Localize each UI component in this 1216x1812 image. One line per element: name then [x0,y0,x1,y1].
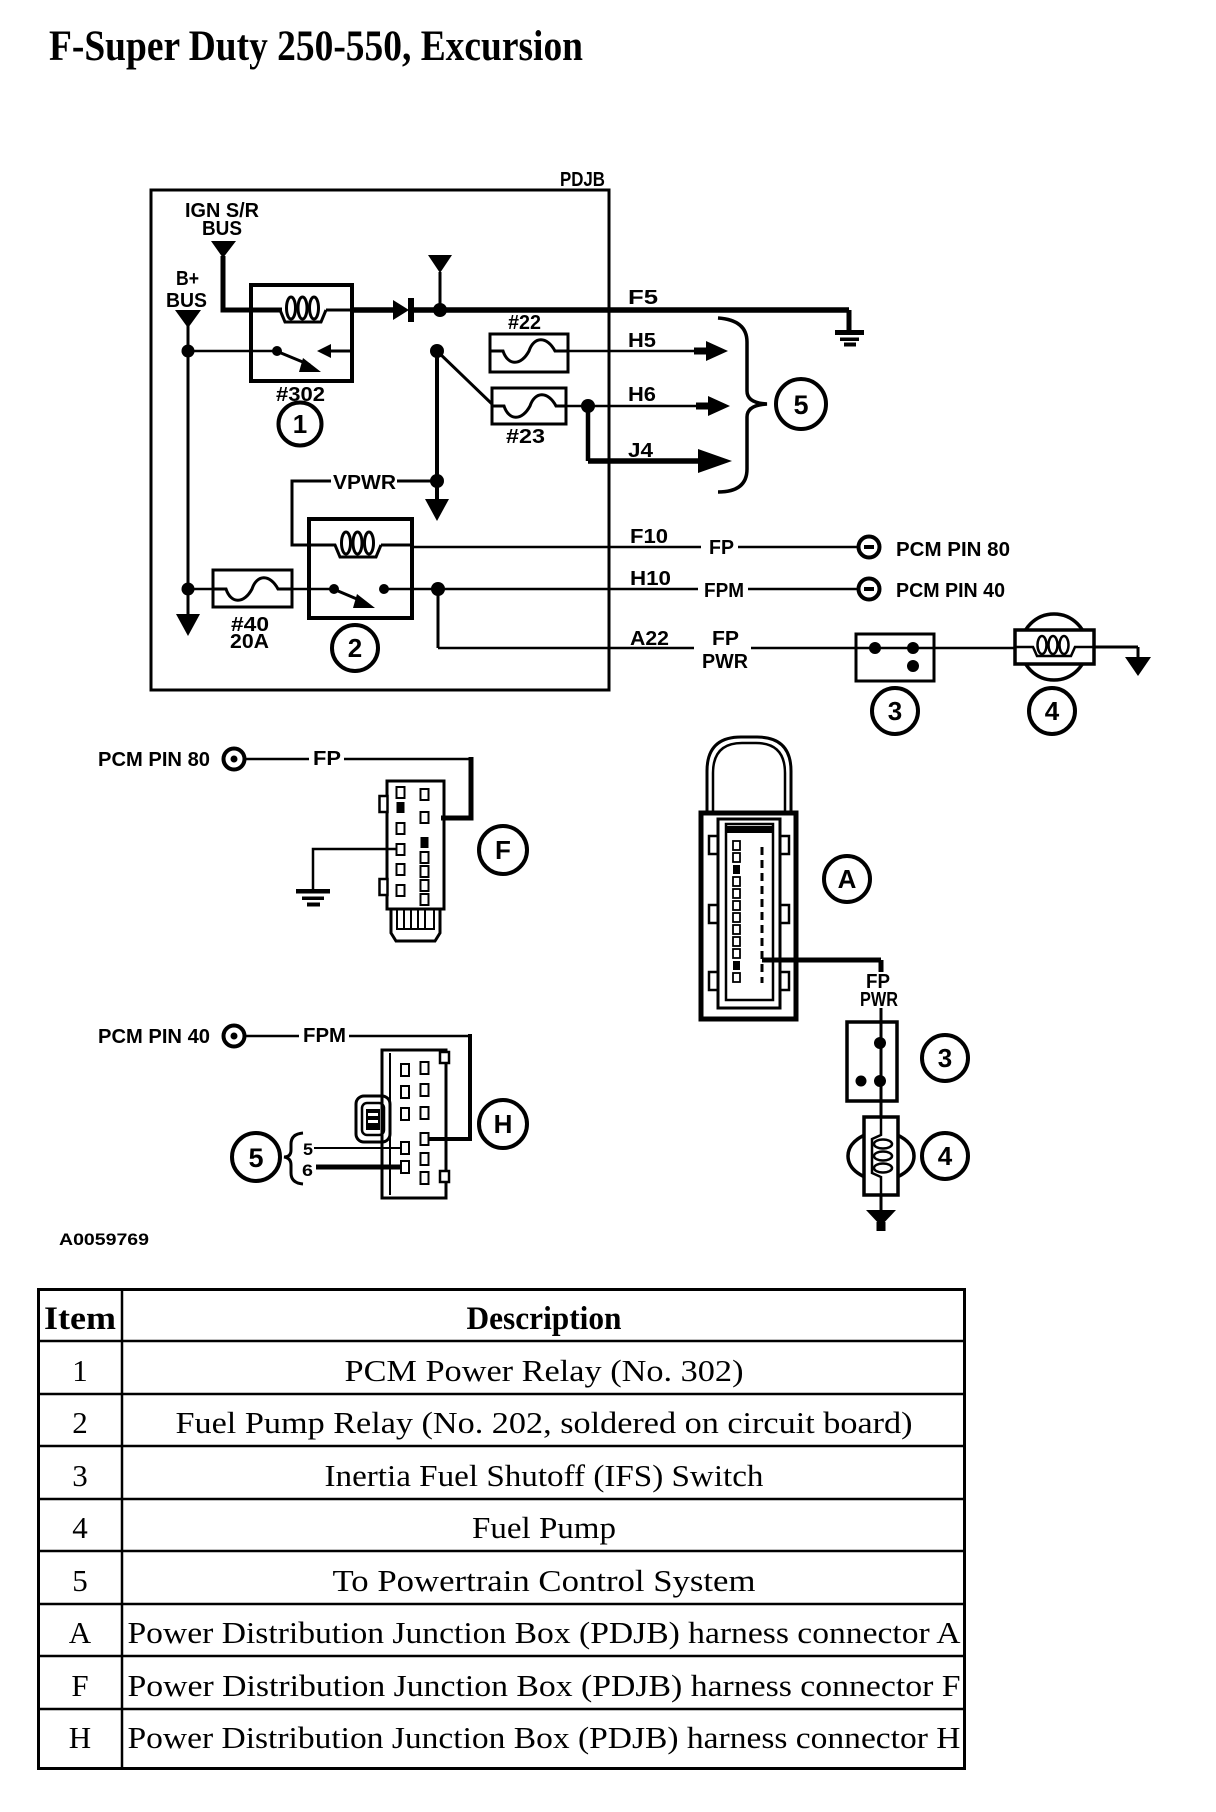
svg-text:3: 3 [72,1458,88,1493]
relay 2 box (fuel pump relay) [309,519,412,618]
svg-text:4: 4 [938,1141,953,1171]
connector H left pins [401,1064,409,1076]
svg-text:FPM: FPM [704,580,744,602]
relay 1 coil [280,310,326,322]
junction dot H10 [431,582,445,596]
svg-text:1: 1 [72,1353,88,1388]
PDJB harness connector H body [382,1050,446,1198]
svg-text:FP: FP [313,748,341,770]
svg-text:PWR: PWR [860,989,898,1011]
svg-text:To Powertrain Control System: To Powertrain Control System [333,1563,756,1598]
svg-text:PCM PIN 80: PCM PIN 80 [896,539,1010,561]
svg-text:6: 6 [302,1161,313,1180]
svg-text:Fuel Pump: Fuel Pump [472,1510,616,1545]
wire pin 5 [314,1147,401,1149]
callout circle A [824,856,870,902]
svg-text:PDJB: PDJB [560,169,605,191]
callout circle 1 [279,403,322,446]
terminal PCM PIN 40 [859,579,880,600]
callout circle F [479,826,527,874]
svg-text:A: A [69,1615,92,1650]
junction dot row2 [430,344,444,358]
svg-text:20A: 20A [230,631,269,653]
svg-text:Item: Item [44,1301,116,1337]
junction dot [182,345,195,358]
svg-text:2: 2 [72,1405,88,1440]
connector F right pins [421,789,429,800]
svg-text:BUS: BUS [202,218,242,240]
legend table [39,1290,965,1769]
wire J4 with arrow [586,406,591,461]
wire FP to connector F [245,758,471,761]
svg-text:#23: #23 [506,426,545,448]
wire B+ bus vertical [187,326,190,617]
svg-text:BUS: BUS [166,290,207,312]
svg-text:Fuel Pump Relay (No. 202, sold: Fuel Pump Relay (No. 202, soldered on ci… [176,1405,913,1440]
junction dot [182,583,195,596]
callout circle 3 (lower) [922,1035,968,1081]
wire connector A to FP PWR [762,960,881,972]
diagonal wire to fuse #23 [437,351,492,404]
wire H6 with arrow [566,405,702,408]
callout circle 3 [872,688,918,734]
brace to powertrain control [718,318,767,492]
arrow pointing down into F5 wire [439,272,442,306]
callout circle 2 [332,625,378,671]
arrow B+ bus bottom [176,614,200,636]
svg-text:1: 1 [293,409,307,439]
ground symbol at F5 [847,310,852,332]
callout circle 5 [776,379,826,429]
IFS switch box (horizontal) [856,634,934,681]
fuse #40 20A [213,570,292,607]
junction dot [433,303,447,317]
svg-text:F: F [71,1668,88,1703]
svg-text:5: 5 [303,1140,313,1159]
wire B+ to fuse 40 [193,588,213,591]
PDJB junction box [151,190,609,690]
callout circle 4 (lower) [922,1133,968,1179]
connector A side tabs [709,836,718,854]
wire H5 with arrow [568,350,700,353]
svg-text:PCM PIN 40: PCM PIN 40 [896,580,1005,602]
svg-text:FPM: FPM [303,1025,346,1047]
PDJB harness connector A dome [707,737,791,814]
wire pump to ground arrow [1094,647,1138,658]
svg-text:H: H [494,1109,513,1139]
wire pump to ground arrow (vertical) [880,1195,883,1211]
svg-text:3: 3 [888,696,902,726]
callout circle H [479,1100,527,1148]
wire connector F to ground [313,849,397,890]
svg-text:PCM PIN 40: PCM PIN 40 [98,1026,210,1048]
svg-text:F-Super Duty 250-550, Excursio: F-Super Duty 250-550, Excursion [49,23,583,70]
svg-text:Description: Description [467,1301,622,1337]
svg-text:J4: J4 [628,440,654,462]
relay 1 switch [272,346,282,356]
wire FPM to connector H [245,1035,470,1038]
callout circle 5 (lower) [232,1133,280,1181]
svg-text:Power Distribution Junction Bo: Power Distribution Junction Box (PDJB) h… [128,1720,961,1755]
svg-text:PWR: PWR [702,651,749,673]
svg-text:F10: F10 [630,526,668,548]
svg-text:FP: FP [709,537,734,559]
wire fuse 40 to relay 2 [292,588,334,591]
svg-text:Power Distribution Junction Bo: Power Distribution Junction Box (PDJB) h… [128,1615,962,1650]
connector A pin column [733,841,740,850]
fuel pump (horizontal) [1021,614,1087,680]
callout circle 4 [1029,688,1075,734]
svg-text:Power Distribution Junction Bo: Power Distribution Junction Box (PDJB) h… [128,1668,961,1703]
ground symbol [296,889,330,894]
net VPWR [292,481,331,545]
junction dot VPWR [430,474,444,488]
svg-text:B+: B+ [176,268,199,290]
connector H side plug [356,1096,390,1142]
relay 2 switch [329,584,339,594]
svg-text:A: A [838,864,857,894]
svg-text:4: 4 [72,1510,88,1545]
connector H right pins [421,1062,429,1074]
terminal PCM PIN 80 [859,537,880,558]
brace pins 5/6 [284,1133,303,1184]
svg-text:VPWR: VPWR [333,472,397,494]
svg-text:A22: A22 [630,628,669,650]
wire B+ to relay K1 contact [188,350,277,353]
wire VPWR vertical with down arrow [435,354,439,500]
connector F lower shroud [391,909,440,941]
wire FP PWR to IFS [880,1008,883,1022]
relay 1 box (PCM power relay #302) [251,285,352,381]
svg-text:F5: F5 [628,287,658,309]
svg-text:#22: #22 [508,312,541,334]
connector F left pins [397,787,405,798]
svg-text:H10: H10 [630,568,671,590]
wire H10 / FPM to PCM PIN 40 [412,588,858,591]
svg-text:5: 5 [72,1563,88,1598]
svg-text:2: 2 [348,633,362,663]
svg-text:F: F [495,835,511,865]
wire IGN S/R bus to relay K1 coil [223,256,282,310]
junction dot H6 [581,399,595,413]
svg-text:H: H [69,1720,91,1755]
fuse #22 [490,334,568,372]
fuse #23 [492,388,566,424]
svg-text:Inertia Fuel Shutoff (IFS) Swi: Inertia Fuel Shutoff (IFS) Switch [325,1458,765,1493]
connector A body [701,813,796,1019]
svg-text:H5: H5 [628,330,656,352]
svg-text:H6: H6 [628,384,656,406]
connector A dashed pin line [761,847,764,983]
wire pin 6 [316,1165,401,1170]
wire A22 / FP PWR [437,589,440,648]
svg-text:PCM PIN 80: PCM PIN 80 [98,749,210,771]
IFS switch box (vertical) [847,1022,897,1101]
svg-text:FP: FP [712,628,739,650]
svg-text:A0059769: A0059769 [59,1230,149,1249]
svg-text:5: 5 [793,390,808,420]
svg-text:PCM Power Relay (No. 302): PCM Power Relay (No. 302) [345,1353,744,1388]
wire F5 (thick) [413,307,849,313]
svg-text:4: 4 [1045,696,1060,726]
fuel pump (vertical) [848,1132,914,1180]
PDJB harness connector F body [387,781,444,909]
svg-text:5: 5 [248,1143,263,1173]
wire F10 / FP to PCM PIN 80 [412,546,858,549]
diode [352,307,393,313]
relay 2 coil [309,545,381,557]
svg-text:3: 3 [938,1043,952,1073]
